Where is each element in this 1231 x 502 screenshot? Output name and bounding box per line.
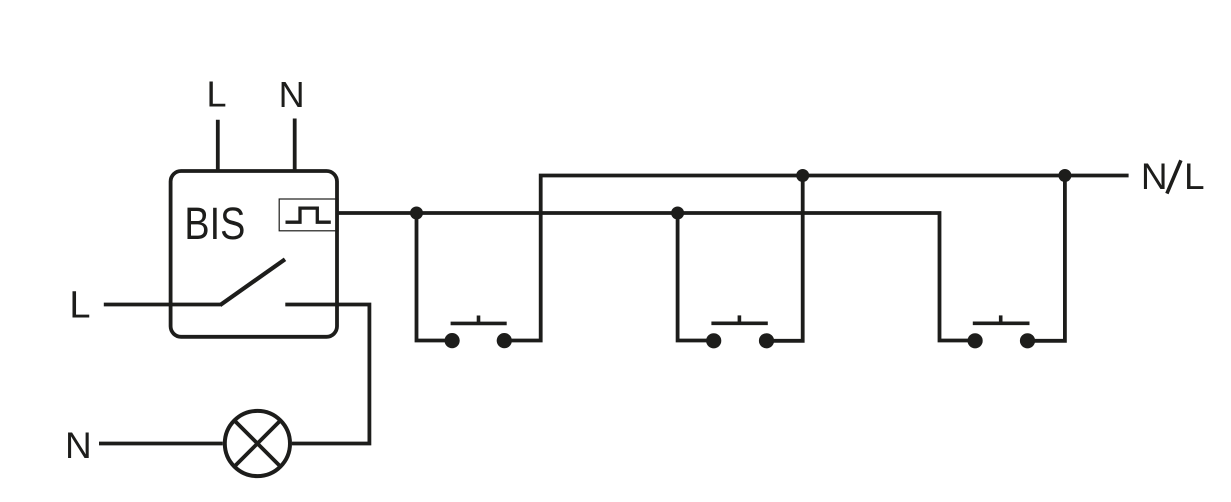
wire: S1 right contact up to N/L bus and bus run (504, 176, 1128, 341)
svg-text:L: L (1184, 156, 1205, 197)
wire: switch output down to lamp (285, 305, 369, 444)
junction node C on N/L bus (796, 169, 809, 182)
relay module U1 (BIS box) (171, 171, 337, 337)
svg-text:L: L (206, 74, 226, 115)
pushbutton S3 left contact (968, 333, 983, 348)
pushbutton S2 bar (711, 321, 767, 325)
svg-text:N: N (65, 425, 92, 466)
pushbutton S2 actuator tick (738, 315, 742, 323)
wire: S2 right contact up to N/L bus (767, 176, 803, 341)
pushbutton S1 actuator tick (477, 316, 481, 324)
svg-text:N: N (279, 74, 305, 115)
lamp E1 (circle) (225, 411, 290, 476)
pushbutton S3 right contact (1020, 333, 1035, 348)
pushbutton S1 bar (451, 322, 507, 326)
pushbutton S1 left contact (445, 333, 460, 348)
lamp E1 cross (234, 421, 280, 467)
pushbutton S1 right contact (497, 333, 512, 348)
wire: N input to lamp (99, 442, 223, 446)
wire: drop from node B to button S2 (678, 213, 714, 341)
svg-text:BIS: BIS (184, 198, 245, 249)
junction node B (671, 207, 684, 220)
svg-text:N: N (1141, 156, 1168, 197)
wire: S3 right contact up to N/L bus (1028, 176, 1065, 341)
pushbutton S3 actuator tick (999, 315, 1003, 323)
wire: L input to switch hinge (104, 303, 221, 307)
pushbutton S2 left contact (706, 333, 721, 348)
switch blade S0 inside U1 (220, 259, 285, 305)
pushbutton S2 right contact (759, 333, 774, 348)
wire: drop from node A to button S1 (417, 213, 453, 341)
wire: pulse output bus (to buttons) (337, 213, 975, 341)
label N/L slash (1167, 160, 1181, 193)
pushbutton S3 bar (973, 321, 1030, 325)
pulse symbol box on U1 (279, 199, 338, 231)
junction node A (410, 207, 423, 220)
wire: top L terminal into U1 (216, 120, 220, 171)
pulse waveform glyph (286, 208, 331, 222)
wire: top N terminal into U1 (293, 119, 297, 172)
label BIS (184, 198, 245, 249)
svg-text:L: L (69, 285, 90, 327)
junction node D on N/L bus (1058, 169, 1071, 182)
